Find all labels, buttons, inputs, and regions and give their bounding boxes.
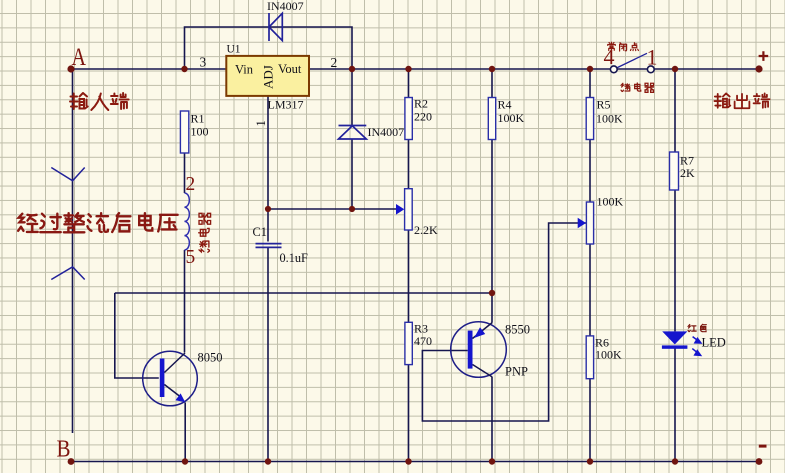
junction dots bottom bus (68, 458, 763, 465)
svg-text:R4: R4 (498, 98, 512, 112)
resistor R6 (586, 336, 593, 379)
diode D1 IN4007 top (269, 13, 282, 41)
potentiometer RP1 wiper arrow (396, 204, 404, 215)
wire bottom bus B to - (71, 461, 759, 463)
transistor Q1 base bar (160, 359, 165, 398)
svg-text:2.2K: 2.2K (414, 223, 438, 237)
minus terminal (759, 445, 767, 448)
svg-text:5: 5 (186, 247, 196, 268)
resistor R4 (488, 98, 495, 140)
transistor Q2 8550 circle (451, 322, 507, 378)
potentiometer RP1 2.2K body (405, 189, 413, 230)
wire R1 to relay coil top (184, 153, 186, 193)
transistor Q2 emitter arrow (474, 327, 485, 338)
text 红色 (688, 324, 706, 331)
wire R5 pot R6 column (589, 69, 591, 462)
text 继电器 rotated at relay (199, 213, 211, 252)
resistor R2 (405, 98, 412, 140)
switch contact 1 circle (647, 66, 654, 73)
wire ADJ node to 2.2K pot wiper (268, 208, 398, 210)
switch contact 4 circle (610, 66, 617, 73)
wire left input column (72, 69, 74, 433)
text 经过整流后电压 (18, 213, 177, 232)
svg-text:100K: 100K (498, 111, 525, 125)
svg-text:220: 220 (414, 110, 432, 124)
wire mid horizontal R4 to Q1 base branch (115, 292, 492, 294)
input arrow up chevron (51, 267, 84, 280)
switch lever (617, 53, 648, 68)
svg-text:2: 2 (186, 174, 196, 195)
junction dots mid nodes (265, 206, 495, 296)
svg-text:100K: 100K (597, 195, 624, 209)
svg-text:R1: R1 (191, 111, 205, 125)
svg-text:IN4007: IN4007 (368, 125, 405, 139)
wire main horizontal bus A to + (71, 68, 759, 70)
text 常闭点 (608, 42, 639, 51)
transistor Q2 base bar (468, 331, 473, 369)
svg-text:8550: 8550 (505, 323, 530, 337)
svg-text:100: 100 (191, 125, 209, 139)
input arrow down chevron (51, 168, 84, 181)
LED D3 light arrow 2 (692, 349, 700, 356)
capacitor C1 plates (256, 244, 282, 248)
relay coil L1 (185, 193, 190, 250)
wire top loop through diode D1 (185, 27, 353, 69)
svg-text:0.1uF: 0.1uF (280, 251, 309, 265)
wire R2 column (408, 69, 410, 462)
wire Q1 emitter down (184, 403, 186, 462)
text 输入端 (70, 93, 129, 110)
svg-text:U1: U1 (227, 43, 241, 55)
svg-text:C1: C1 (253, 225, 267, 239)
svg-text:8050: 8050 (198, 351, 223, 365)
wire R4 column (491, 69, 493, 462)
LED D3 light arrow 1 (693, 337, 701, 343)
svg-text:3: 3 (200, 55, 207, 70)
wire relay coil bottom to Q1 collector (184, 250, 186, 353)
wire R7 LED column (674, 69, 676, 462)
svg-text:LM317: LM317 (268, 98, 304, 112)
plus terminal (759, 51, 769, 61)
regulator U1 body (226, 56, 309, 96)
svg-text:R2: R2 (414, 97, 428, 111)
transistor Q1 collector line (164, 353, 185, 373)
transistor Q2 collector line (473, 365, 493, 378)
wire C1 bottom to bottom bus (267, 248, 269, 462)
svg-text:LED: LED (702, 336, 726, 350)
svg-text:2: 2 (331, 55, 338, 70)
svg-text:B: B (57, 436, 71, 462)
svg-text:R5: R5 (597, 98, 611, 112)
svg-text:IN4007: IN4007 (267, 0, 304, 13)
resistor R1 (180, 111, 188, 153)
LED D3 cathode bar (662, 345, 688, 348)
potentiometer RP2 wiper arrow (578, 218, 586, 229)
transistor Q2 emitter line (473, 323, 493, 339)
LED D3 triangle (662, 331, 687, 344)
resistor R7 (670, 152, 679, 190)
svg-text:PNP: PNP (505, 365, 528, 379)
svg-text:Vin: Vin (235, 62, 254, 76)
diode D2 IN4007 mid (339, 126, 367, 140)
svg-text:470: 470 (414, 334, 432, 348)
svg-text:1: 1 (647, 45, 658, 70)
svg-text:Vout: Vout (278, 62, 302, 76)
resistor R3 (405, 322, 412, 364)
text 继电器 at switch (621, 83, 653, 92)
transistor Q1 emitter line (164, 385, 180, 397)
svg-text:A: A (72, 44, 87, 71)
text 输出端 (714, 93, 769, 108)
transistor Q1 8050 circle (143, 351, 198, 406)
svg-text:1: 1 (254, 120, 268, 126)
svg-text:100K: 100K (596, 112, 623, 126)
potentiometer RP2 100K body (586, 202, 593, 244)
svg-text:2K: 2K (680, 166, 695, 180)
resistor R5 (586, 98, 593, 140)
transistor Q1 emitter arrow (176, 393, 186, 402)
svg-text:ADJ: ADJ (261, 65, 276, 89)
svg-text:100K: 100K (595, 348, 622, 362)
junction dots top bus (67, 65, 762, 72)
wire D2 column (351, 69, 353, 209)
wire Q1 base routing (115, 293, 159, 378)
wire Q2 base routing from 100K pot wiper (422, 223, 592, 421)
wire LM317 pin1 down to C1 (267, 96, 269, 242)
